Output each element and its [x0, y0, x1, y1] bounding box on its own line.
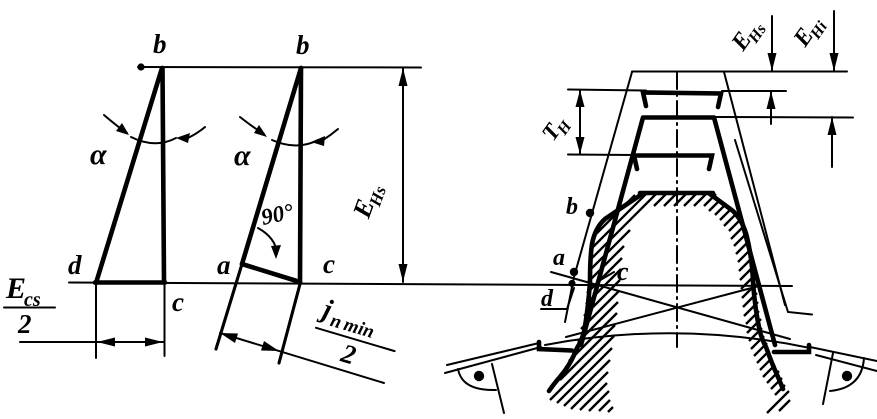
dot at left end of top line: [137, 63, 144, 70]
leader bracket from d to flank: [541, 288, 574, 309]
label EHi (top right, rotated): [788, 11, 831, 55]
X construction line 1 (a-c extended to right root): [551, 272, 790, 339]
right construction flank with foot: [735, 140, 812, 315]
arrowhead down (EHs): [399, 264, 408, 282]
perpendicular segment a-c: [242, 264, 300, 282]
svg-text:b: b: [296, 30, 310, 60]
arrow from 90 label to right angle: [258, 228, 277, 254]
triangle side b-c (vertical): [300, 68, 301, 283]
right sector symbol line: [823, 353, 833, 404]
arrowhead up (EHs): [399, 68, 408, 86]
svg-text:α: α: [90, 138, 107, 171]
arrowhead upper-left (jnmin/2): [220, 333, 238, 343]
second deviation line (thick with hooks): [634, 156, 712, 170]
EHs profile thin extension right: [722, 90, 786, 92]
left sector symbol line: [492, 364, 504, 413]
label TH (rotated): [537, 110, 576, 148]
actual tooth left flank: [549, 194, 642, 391]
TH lower extension line (left): [568, 154, 634, 157]
svg-text:a: a: [217, 250, 231, 280]
right rim line lower: [816, 355, 877, 371]
point d on gear flank: [568, 280, 575, 287]
hatching: [550, 193, 790, 413]
pitch line (common horizontal line through c points): [69, 283, 792, 287]
dimension line jnmin/2 (perpendicular to flank lines): [220, 333, 384, 383]
svg-text:c: c: [323, 249, 335, 279]
arrowhead left (Ecs/2): [97, 338, 115, 347]
point b on gear flank: [586, 209, 594, 217]
arrowhead lower-right (jnmin/2): [261, 341, 279, 351]
TH dimension line with arrows: [579, 90, 581, 154]
EHs dimension line (top right): [771, 16, 773, 71]
EHi dimension line (top right): [833, 11, 835, 71]
actual tooth right flank: [710, 194, 783, 389]
second slant line from c (parallel to ba): [279, 284, 300, 363]
extension line below c: [164, 283, 166, 356]
nominal left flank (through points b a d): [565, 72, 632, 322]
slant extension below a: [216, 264, 242, 349]
svg-text:E: E: [5, 272, 26, 305]
X construction line 2 (right pitch point to left root): [566, 286, 759, 337]
nominal right flank: [724, 72, 785, 305]
svg-text:a: a: [553, 245, 565, 271]
svg-text:b: b: [153, 29, 167, 59]
centerline (dash-dot): [676, 72, 678, 347]
left sector dot: [474, 371, 484, 381]
svg-text:d: d: [68, 250, 82, 280]
label Ecs/2 fraction: [4, 272, 55, 339]
root circle arc: [545, 333, 810, 348]
main thick profile (lower deviation trapezoid): [581, 118, 775, 346]
thick profile top extension right: [714, 116, 853, 119]
extension line below d: [95, 283, 97, 358]
left rim line lower: [445, 347, 541, 373]
leader from c to flank: [597, 272, 614, 282]
TH upper extension line (left): [568, 90, 646, 91]
triangle side b-a extended (slant): [242, 68, 301, 264]
point a on gear flank: [570, 268, 578, 276]
left rim line upper: [447, 343, 539, 365]
label EHs (top right, rotated): [726, 14, 770, 59]
right root shoe (thick): [774, 345, 809, 352]
right rim line upper: [810, 347, 877, 361]
left sector symbol arc: [458, 369, 496, 390]
EHs profile line (upper deviation, thick with hooks): [643, 93, 721, 108]
triangle side b-c (vertical): [163, 68, 165, 282]
svg-text:2: 2: [17, 309, 32, 339]
left root shoe (thick): [539, 342, 572, 351]
actual tooth outline (hatched profile): [640, 191, 713, 196]
angle alpha arc with arrows (middle triangle): [240, 117, 264, 134]
label jn min / 2 fraction (rotated): [305, 293, 405, 381]
triangle side b-d (slant): [96, 68, 162, 283]
top horizontal line through b vertices: [138, 66, 421, 69]
svg-text:b: b: [566, 194, 578, 220]
nominal top line extension right: [724, 71, 847, 73]
svg-text:c: c: [617, 257, 629, 286]
dimension line Ecs/2: [20, 341, 164, 343]
right sector dot: [842, 371, 852, 381]
svg-text:c: c: [172, 287, 184, 317]
arrowhead right (Ecs/2): [145, 338, 163, 347]
right sector symbol arc: [830, 358, 864, 391]
svg-text:α: α: [234, 139, 251, 172]
nominal profile top edge: [632, 71, 724, 73]
label EHs (rotated): [347, 179, 390, 224]
triangle bottom edge d-c: [95, 280, 165, 285]
dimension line EHs: [402, 68, 404, 282]
angle alpha arc with arrows (left triangle): [104, 115, 127, 133]
